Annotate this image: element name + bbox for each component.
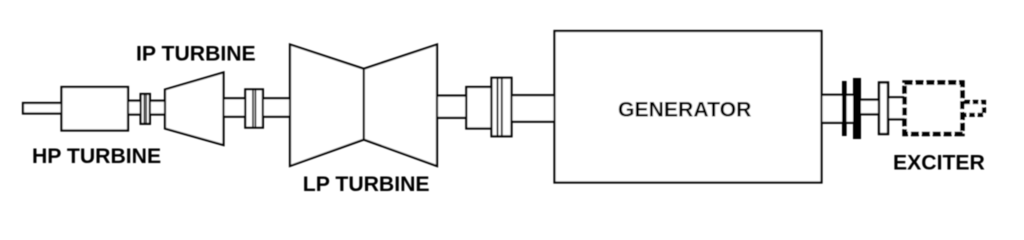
svg-text:HP TURBINE: HP TURBINE: [32, 145, 161, 168]
svg-text:IP TURBINE: IP TURBINE: [136, 43, 256, 66]
svg-text:GENERATOR: GENERATOR: [618, 98, 751, 121]
svg-text:EXCITER: EXCITER: [893, 151, 985, 174]
svg-text:LP TURBINE: LP TURBINE: [303, 173, 430, 196]
